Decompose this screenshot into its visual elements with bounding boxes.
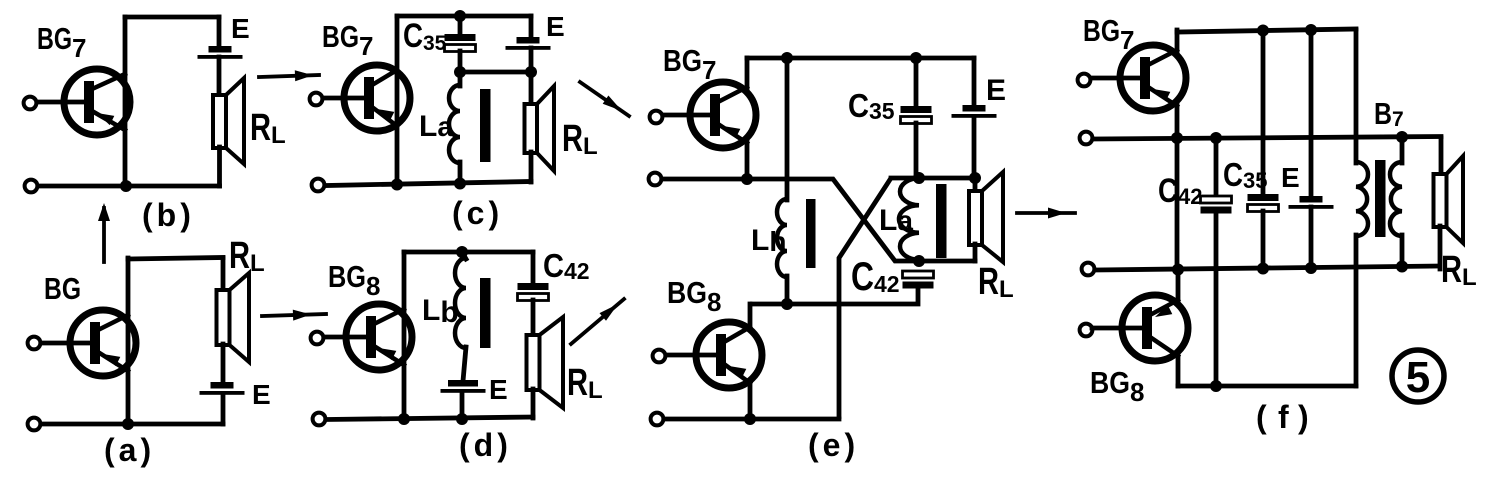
base lead of BG7 (f) bbox=[1090, 76, 1143, 81]
node (d) emitter junction bbox=[398, 413, 410, 425]
wire (f) speaker stub bottom bbox=[1438, 226, 1443, 269]
node (c) speaker top junction bbox=[525, 66, 537, 78]
speaker RL of circuit (d) bbox=[527, 317, 564, 408]
svg-text:(c): (c) bbox=[452, 195, 503, 231]
wire (e) BG7 emitter vertical bbox=[745, 142, 750, 179]
arrow (a) to (b) bbox=[102, 208, 106, 262]
wire (c) top rail bbox=[397, 14, 531, 19]
input terminal (c) base bbox=[310, 93, 323, 106]
node (e) speaker top junction bbox=[969, 172, 981, 184]
wire (f) primary vertical bbox=[1354, 30, 1359, 163]
wire (d) coil to battery bbox=[463, 347, 466, 381]
node (e) BG7 emitter junction bbox=[741, 173, 753, 185]
wire (f) BG8 lower stub bbox=[1176, 355, 1181, 386]
transformer core La (e) bbox=[936, 184, 947, 258]
speaker RL of circuit (b) bbox=[213, 78, 244, 164]
node (a) emitter junction bbox=[122, 418, 134, 430]
svg-text:E: E bbox=[231, 13, 250, 44]
svg-text:(b): (b) bbox=[142, 197, 195, 233]
speaker RL of circuit (f) bbox=[1434, 156, 1464, 243]
node (b) emitter junction bbox=[120, 180, 132, 192]
node (e) C35 top junction bbox=[910, 52, 922, 64]
inductor La of circuit (c) bbox=[449, 85, 460, 163]
wire (e) La bottom to speaker bottom bbox=[919, 259, 975, 264]
wire (a) bottom rail bbox=[42, 422, 223, 427]
speaker RL of circuit (e) bbox=[969, 172, 1003, 262]
node (e) Lh top junction bbox=[781, 52, 793, 64]
input terminal (b) base bbox=[24, 97, 37, 110]
transformer B7 primary winding bbox=[1356, 162, 1368, 236]
node (d) battery junction bbox=[456, 413, 468, 425]
wire (e) C35 stub bottom bbox=[914, 123, 919, 178]
wire (e) BG7 collector stub bbox=[745, 58, 750, 88]
wire (f) rail2 bbox=[1094, 137, 1441, 140]
node (e) La top junction bbox=[913, 172, 925, 184]
wire (a) top rail bbox=[128, 258, 223, 260]
node (f) E bottom junction bbox=[1305, 262, 1317, 274]
wire (f) primary lower vertical bbox=[1354, 235, 1359, 386]
wire (e) Lh bottom stub bbox=[785, 276, 790, 304]
node (f) C35 bottom junction bbox=[1257, 263, 1269, 275]
input terminal (a) bottom bbox=[28, 418, 41, 431]
svg-text:E: E bbox=[986, 74, 1006, 107]
arrow (a) to (d) bbox=[262, 314, 326, 316]
wire (e) battery stub bottom bbox=[972, 117, 977, 178]
node (c) emitter junction bbox=[391, 179, 403, 191]
input terminal (c) bottom bbox=[312, 179, 325, 192]
node (f) rail3 emitter junction bbox=[1172, 264, 1184, 276]
base lead of BG7 (b) bbox=[36, 100, 87, 105]
node (e) C42 top junction bbox=[913, 255, 925, 267]
wire (c) coil bottom stub bbox=[458, 162, 463, 184]
wire (c) speaker to bottom rail bbox=[529, 152, 534, 182]
capacitor C35 of circuit (e) bbox=[901, 106, 932, 124]
wire (c) C35 stub bbox=[458, 16, 463, 35]
wire (c) speaker stub top bbox=[529, 72, 534, 105]
wire (e) crossover up-diagonal bbox=[839, 178, 891, 419]
wire (d) bottom rail bbox=[327, 417, 533, 420]
svg-text:E: E bbox=[489, 374, 508, 405]
transformer core of circuit (d) bbox=[480, 278, 491, 348]
wire (e) Lh vertical bbox=[785, 58, 790, 200]
svg-text:La: La bbox=[419, 110, 453, 143]
input terminal (b) bottom bbox=[25, 180, 38, 193]
transformer core B7 (f) bbox=[1375, 160, 1386, 237]
node (f) secondary bottom junction bbox=[1396, 261, 1408, 273]
svg-text:): ) bbox=[1298, 399, 1309, 435]
svg-text:(a): (a) bbox=[104, 432, 155, 468]
node (c) coil top junction bbox=[454, 66, 466, 78]
wire (c) mid rail bbox=[460, 70, 531, 75]
wire (e) C35 stub top bbox=[914, 58, 919, 107]
input terminal (a) base bbox=[28, 337, 41, 350]
wire (e) speaker stub bottom bbox=[973, 244, 978, 261]
transistor BG8 of circuit (e) bbox=[696, 322, 762, 388]
wire (e) bottom rail bbox=[665, 417, 839, 422]
speaker RL of circuit (a) bbox=[217, 273, 250, 362]
node (f) C35 top junction bbox=[1257, 25, 1269, 37]
node (f) secondary top junction bbox=[1396, 131, 1408, 143]
wire (a) collector-emitter vertical bbox=[126, 258, 131, 424]
svg-text:5: 5 bbox=[1406, 353, 1430, 402]
base lead of BG bbox=[40, 341, 93, 346]
transistor BG7 of circuit (b) bbox=[64, 69, 130, 135]
wire (e) rail2 left with crossover bbox=[663, 179, 919, 261]
input terminal (e) BG7 base bbox=[650, 111, 663, 124]
wire (f) C42 stub top bbox=[1214, 138, 1219, 197]
battery E of circuit (f) bbox=[1289, 196, 1334, 209]
wire (b) battery stub bbox=[217, 17, 222, 47]
battery E of circuit (a) bbox=[200, 382, 245, 395]
transformer core of circuit (c) bbox=[480, 89, 491, 162]
wire (e) speaker stub top bbox=[973, 178, 978, 192]
svg-text:Lb: Lb bbox=[422, 294, 459, 329]
transistor BG7 of circuit (f) bbox=[1120, 45, 1186, 111]
wire (f) BG8 upper stub bbox=[1176, 269, 1181, 301]
wire (d) collector-emitter vertical bbox=[402, 252, 407, 419]
transformer B7 secondary winding bbox=[1390, 162, 1402, 236]
wire (d) top rail bbox=[404, 250, 533, 255]
svg-text:BG: BG bbox=[44, 271, 81, 306]
wire (a) speaker stub top bbox=[221, 258, 226, 291]
wire (f) C42 vertical to rail4 bbox=[1214, 213, 1219, 386]
svg-text:f: f bbox=[1278, 399, 1289, 435]
node (c) top rail junction bbox=[454, 10, 466, 22]
inductor La of circuit (e) bbox=[899, 178, 919, 260]
arrow (e) to (f) bbox=[1017, 211, 1075, 215]
wire (d) C42 to speaker bbox=[531, 300, 536, 336]
wire (f) secondary top stub bbox=[1400, 138, 1405, 163]
wire (e) rail2 right bbox=[891, 176, 977, 181]
capacitor C35 of circuit (c) bbox=[445, 34, 476, 52]
wire (d) speaker to bottom rail bbox=[531, 389, 536, 418]
wire (b) battery to speaker bbox=[217, 57, 222, 96]
svg-text:Lh: Lh bbox=[751, 224, 786, 257]
base lead of BG8 (f) bbox=[1092, 326, 1145, 331]
wire (f) rail3 bbox=[1096, 266, 1439, 270]
wire (f) top rail bbox=[1177, 29, 1356, 32]
wire (f) C35 vertical bottom bbox=[1261, 211, 1266, 269]
wire (b) top rail bbox=[125, 15, 219, 20]
capacitor C42 of circuit (f) bbox=[1201, 196, 1232, 214]
wire (f) E vertical top bbox=[1309, 30, 1314, 197]
wire (e) top rail bbox=[747, 56, 974, 61]
battery E of circuit (b) bbox=[198, 46, 243, 59]
wire (b) speaker to bottom rail bbox=[217, 147, 222, 186]
arrow (b) to (c) bbox=[259, 75, 319, 77]
speaker RL of circuit (c) bbox=[525, 86, 555, 171]
svg-text:(: ( bbox=[1256, 399, 1267, 435]
wire (d) battery to bottom rail bbox=[460, 392, 465, 419]
node (d) top rail junction bbox=[456, 246, 468, 258]
figure number 5 circle bbox=[1392, 350, 1444, 402]
wire (f) secondary bottom stub bbox=[1400, 235, 1405, 269]
wire (c) bottom rail bbox=[326, 182, 531, 186]
wire (e) battery stub top bbox=[972, 58, 977, 106]
node (e) BG8 emitter junction bbox=[744, 413, 756, 425]
wire (e) BG8 emitter stub bbox=[748, 382, 753, 419]
wire (e) BG8 collector stub bbox=[748, 304, 753, 328]
inductor Lh of circuit (e) bbox=[777, 199, 787, 277]
transistor BG8 of circuit (d) bbox=[346, 304, 412, 370]
capacitor C42 of circuit (d) bbox=[518, 283, 549, 301]
wire (f) C35 vertical top bbox=[1261, 30, 1266, 195]
base lead of BG8 (d) bbox=[323, 335, 369, 340]
transistor BG of circuit (a) bbox=[70, 310, 136, 376]
node (f) C42 top junction bbox=[1210, 132, 1222, 144]
svg-text:E: E bbox=[1281, 162, 1300, 193]
svg-text:E: E bbox=[546, 11, 565, 42]
capacitor C42 of circuit (e) bbox=[903, 271, 934, 289]
wire (a) battery to bottom rail bbox=[221, 394, 226, 424]
base lead of BG8 (e) bbox=[665, 353, 719, 358]
input terminal (f) BG8 base bbox=[1080, 324, 1093, 337]
input terminal (e) rail2 bbox=[649, 173, 662, 186]
transformer core Lh (e) bbox=[806, 199, 816, 268]
svg-text:La: La bbox=[879, 204, 913, 237]
node (f) emitter-rail2 junction bbox=[1171, 132, 1183, 144]
wire (f) BG7 emitter vertical bbox=[1175, 105, 1180, 269]
wire (c) battery to mid node bbox=[529, 48, 534, 72]
transistor BG7 of circuit (c) bbox=[344, 65, 410, 131]
node (c) coil bottom junction bbox=[454, 178, 466, 190]
wire (c) C35 to mid node bbox=[458, 51, 463, 72]
wire (d) C42 stub bbox=[531, 252, 536, 284]
transistor BG7 of circuit (e) bbox=[690, 82, 756, 148]
input terminal (d) bottom bbox=[313, 413, 326, 426]
svg-text:E: E bbox=[252, 379, 271, 410]
base lead of BG7 (c) bbox=[322, 96, 367, 101]
wire (f) BG7 collector stub bbox=[1175, 30, 1180, 51]
node (f) rail4 C42 junction bbox=[1210, 380, 1222, 392]
wire (f) rail4 bbox=[1178, 384, 1356, 389]
base lead of BG7 (e) bbox=[662, 113, 713, 118]
battery E of circuit (e) bbox=[952, 105, 997, 118]
arrow (c) to (e) bbox=[580, 82, 629, 116]
wire (a) speaker to battery bbox=[221, 344, 226, 383]
inductor Lb of circuit (d) bbox=[455, 258, 466, 348]
wire (c) coil top stub bbox=[458, 72, 463, 86]
wire (b) bottom rail bbox=[39, 184, 220, 189]
arrow (d) to (e) bbox=[571, 299, 624, 344]
node (e) Lh bottom junction bbox=[781, 298, 793, 310]
wire (e) C42 stub bottom bbox=[750, 287, 918, 304]
battery E of circuit (c) bbox=[506, 37, 551, 50]
battery E of circuit (d) bbox=[441, 380, 486, 393]
node (f) E top junction bbox=[1305, 24, 1317, 36]
wire (d) coil top stub bbox=[462, 252, 466, 259]
wire (c) collector-emitter vertical bbox=[395, 16, 400, 184]
svg-text:(e): (e) bbox=[808, 427, 859, 463]
transistor BG8 of circuit (f) bbox=[1122, 295, 1188, 361]
capacitor C35 of circuit (f) bbox=[1248, 194, 1279, 212]
wire (b) collector-emitter vertical bbox=[123, 17, 128, 186]
input terminal (f) rail3 bbox=[1082, 263, 1095, 276]
svg-text:(d): (d) bbox=[459, 427, 512, 463]
input terminal (d) base bbox=[311, 332, 324, 345]
wire (f) E vertical bottom bbox=[1309, 207, 1314, 269]
wire (f) speaker stub top bbox=[1439, 138, 1444, 175]
input terminal (f) rail2 bbox=[1080, 132, 1093, 145]
wire (c) battery stub bbox=[529, 16, 534, 38]
input terminal (e) BG8 base bbox=[653, 350, 666, 363]
input terminal (f) BG7 base bbox=[1078, 74, 1091, 87]
input terminal (e) bottom bbox=[651, 413, 664, 426]
